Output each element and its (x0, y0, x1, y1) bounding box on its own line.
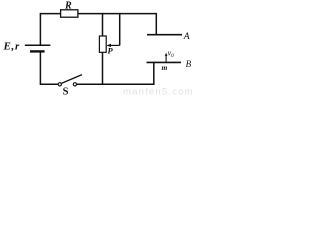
wire right corner vertical (top wire down to plate A) (155, 13, 157, 35)
wire below plate B (153, 62, 155, 85)
svg-text:E,r: E,r (3, 40, 20, 52)
switch S right contact (73, 83, 76, 86)
svg-text:P: P (108, 46, 114, 56)
velocity arrow v0 of particle m (165, 55, 167, 62)
wire slider branch vertical (119, 13, 121, 46)
wire top horizontal (R to right corner) (78, 13, 156, 15)
resistor R (61, 10, 78, 17)
svg-text:m: m (162, 63, 168, 72)
rheostat P box (99, 36, 106, 52)
switch S left contact (58, 83, 61, 86)
svg-text:B: B (186, 59, 192, 69)
slider arrow of P (109, 44, 120, 46)
battery long plate (25, 44, 51, 46)
wire bottom left (to switch) (40, 83, 58, 85)
svg-text:R: R (64, 0, 72, 11)
wire rheostat bottom vertical (102, 52, 104, 85)
switch S blade (61, 75, 82, 84)
capacitor plate B (147, 61, 182, 63)
capacitor plate A (147, 34, 182, 36)
battery short plate (30, 50, 45, 52)
wire rheostat left branch vertical (102, 13, 104, 36)
wire bottom right (switch to plate-B drop) (77, 83, 155, 85)
svg-text:manfen5.com: manfen5.com (123, 87, 193, 97)
wire left vertical upper (top wire to battery) (39, 13, 41, 45)
wire top-left horizontal (battery branch to R) (40, 13, 60, 15)
svg-text:A: A (183, 32, 190, 42)
wire left vertical lower (battery to bottom wire) (39, 52, 41, 85)
svg-text:S: S (63, 87, 69, 97)
svg-text:v0: v0 (168, 48, 175, 59)
